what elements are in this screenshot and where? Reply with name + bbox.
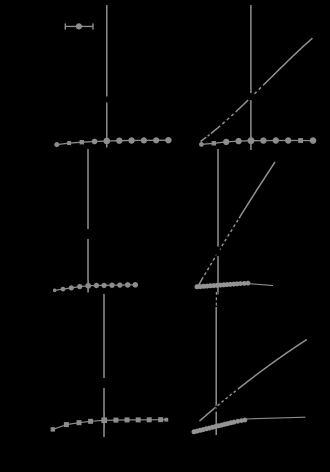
panel B error bar on on-line marker <box>250 134 252 149</box>
panel A isolated data point with horizontal error bar <box>65 23 93 29</box>
panel A error bar on on-line marker <box>106 135 108 148</box>
panel E dashed continuation of line below data <box>215 292 217 307</box>
panel E theory curve <box>198 162 275 286</box>
panel F data cluster of overlapping markers <box>192 418 248 435</box>
panel E black marker covering line and curve <box>216 247 220 257</box>
panel D black marker gap on reference line <box>102 378 106 388</box>
panel C vertical reference line <box>87 149 89 293</box>
panel A data markers <box>54 137 171 147</box>
panel F black marker covering line and curve <box>214 409 218 412</box>
panel E data cluster of overlapping markers <box>195 281 251 289</box>
panel C black marker gap on reference line <box>86 229 90 239</box>
panel B black marker covering line and curve <box>249 93 253 100</box>
panel E error bar below cluster <box>217 282 219 295</box>
panel B black dashed overlay on curve (bottom) <box>206 133 212 137</box>
panel F vertical reference line <box>215 307 217 435</box>
panel D data markers (squares) <box>51 417 169 431</box>
panel F black dashed overlay on curve <box>216 388 240 408</box>
panel B vertical reference line <box>250 5 252 150</box>
panel B data row connecting line <box>201 141 313 145</box>
panel E black dashed overlay on curve <box>203 218 239 277</box>
panel F theory curve <box>200 340 307 422</box>
panel C error bar on on-line marker <box>87 280 89 292</box>
panel C data row connecting line <box>55 285 136 291</box>
panel F thin line extending right of cluster <box>245 417 305 419</box>
panel D data row connecting line <box>53 420 167 430</box>
panel B theory curve <box>201 38 313 141</box>
panel A vertical reference line <box>106 5 108 148</box>
panel A data row connecting line <box>57 140 169 144</box>
panel B black dashed overlay on curve (lower) <box>220 111 237 126</box>
panel B data markers <box>199 137 316 147</box>
panel C data markers <box>53 282 138 292</box>
panel D error bar on on-line marker <box>103 412 105 428</box>
panel E vertical reference line <box>217 149 219 292</box>
panel B black dashed overlay on curve (upper) <box>248 84 265 100</box>
panel E thin line extending right of cluster <box>248 284 273 286</box>
panel A black marker gap on reference line <box>105 97 109 103</box>
panel D vertical reference line <box>103 294 105 437</box>
